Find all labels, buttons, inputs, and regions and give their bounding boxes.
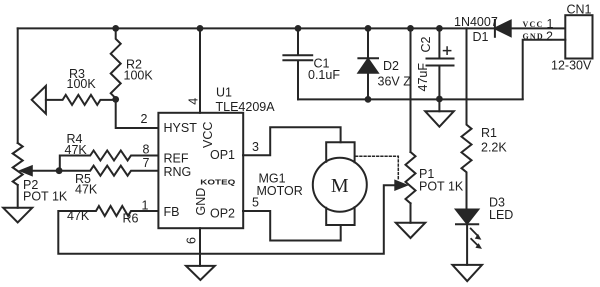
wire: ground stem under C2 <box>438 99 440 111</box>
svg-text:KOTEQ: KOTEQ <box>200 180 236 187</box>
wire: left rail from top rail down to P2 top <box>17 28 19 143</box>
wire: D1 anode to CN1 VCC pin <box>511 27 566 29</box>
svg-text:36V Z: 36V Z <box>378 75 412 89</box>
svg-text:6: 6 <box>184 237 198 244</box>
capacitor C2 <box>427 28 454 99</box>
potentiometer P2 body (vertical zigzag) <box>13 143 23 185</box>
svg-text:1N4007: 1N4007 <box>454 15 498 29</box>
svg-text:R1: R1 <box>481 126 497 140</box>
svg-text:D2: D2 <box>383 59 399 73</box>
diode D1 1N4007 <box>494 20 496 37</box>
svg-text:OP1: OP1 <box>210 148 235 162</box>
svg-text:C2: C2 <box>419 36 433 52</box>
motor top terminal <box>326 142 354 162</box>
resistor R1 <box>462 28 472 208</box>
svg-text:HYST: HYST <box>164 121 198 135</box>
svg-text:VCC: VCC <box>201 122 215 148</box>
svg-text:100K: 100K <box>124 69 154 83</box>
svg-text:2.2K: 2.2K <box>481 141 507 155</box>
svg-text:TLE4209A: TLE4209A <box>216 100 276 114</box>
wire: CN1 GND pin to ground rail <box>523 40 566 99</box>
svg-text:FB: FB <box>164 205 180 219</box>
svg-text:3: 3 <box>252 140 259 154</box>
ground under pin 6 <box>186 266 215 280</box>
svg-text:OP2: OP2 <box>210 207 235 221</box>
dashed mechanical coupling from motor to P1 <box>356 156 399 180</box>
wire: pin 4 VCC drop from top rail <box>199 28 201 112</box>
svg-text:MOTOR: MOTOR <box>257 184 303 198</box>
wire: pin 3 OP1 to motor top terminal <box>243 127 341 155</box>
svg-text:LED: LED <box>489 208 513 222</box>
svg-text:POT 1K: POT 1K <box>23 190 68 204</box>
potentiometer P1 body <box>406 152 416 203</box>
svg-text:47uF: 47uF <box>416 63 430 92</box>
svg-text:47K: 47K <box>67 209 90 223</box>
resistor R6 and FB feedback wire to P1 wiper <box>58 185 396 254</box>
svg-text:2: 2 <box>546 30 553 44</box>
C2 plus polarity mark <box>444 47 451 54</box>
ground under D3 <box>452 265 482 281</box>
svg-text:1: 1 <box>142 199 149 213</box>
ground (left-pointing) at R3 <box>32 86 46 114</box>
resistor R5 <box>59 166 158 176</box>
svg-text:VCC: VCC <box>523 20 544 29</box>
svg-text:D1: D1 <box>473 30 489 44</box>
resistor R2 (vertical) <box>111 28 121 99</box>
svg-text:2: 2 <box>141 112 148 126</box>
svg-text:R6: R6 <box>123 212 139 226</box>
svg-text:U1: U1 <box>216 86 232 100</box>
capacitor C1 <box>283 28 312 99</box>
svg-text:8: 8 <box>143 143 150 157</box>
motor bottom terminal <box>326 207 354 225</box>
svg-text:12-30V: 12-30V <box>551 59 592 73</box>
svg-text:M: M <box>331 175 349 197</box>
svg-text:47K: 47K <box>65 143 88 157</box>
LED D3 light arrows <box>471 229 479 247</box>
ground under C2 <box>425 111 454 126</box>
svg-text:4: 4 <box>187 98 201 105</box>
P2 wiper arrow <box>30 170 59 172</box>
svg-text:47K: 47K <box>75 183 98 197</box>
svg-text:7: 7 <box>143 156 150 170</box>
wire: P2 bottom lead to ground <box>17 185 19 208</box>
svg-text:CN1: CN1 <box>567 3 592 17</box>
connector CN1 body <box>565 15 592 58</box>
svg-text:POT 1K: POT 1K <box>419 180 464 194</box>
motor MG1 body <box>313 158 367 212</box>
wire: R2 bottom junction to pin 2 (HYST) <box>116 99 158 128</box>
wire: P1 bottom lead <box>410 203 412 223</box>
P1 wiper arrow <box>395 181 406 190</box>
zener diode D2 <box>358 28 378 99</box>
svg-text:GND: GND <box>194 188 208 216</box>
svg-text:REF: REF <box>164 152 189 166</box>
wire: bottom ground rail <box>298 98 523 100</box>
op-amp U1 TLE4209A body <box>158 113 243 228</box>
svg-text:0.1uF: 0.1uF <box>308 68 340 82</box>
wire: pin 6 GND to ground <box>199 228 201 266</box>
svg-text:100K: 100K <box>67 77 97 91</box>
svg-text:GND: GND <box>523 32 544 41</box>
resistor R4 <box>60 151 158 171</box>
ground under P1 <box>396 223 425 238</box>
svg-text:RNG: RNG <box>164 165 192 179</box>
wire: P1 top feed from top rail <box>410 28 412 152</box>
LED D3 <box>456 210 478 224</box>
wire: top power rail <box>18 27 495 29</box>
wire: pin 5 OP2 to motor bottom terminal <box>243 211 341 241</box>
resistor R3 <box>46 95 116 105</box>
ground under P2 <box>3 208 32 223</box>
